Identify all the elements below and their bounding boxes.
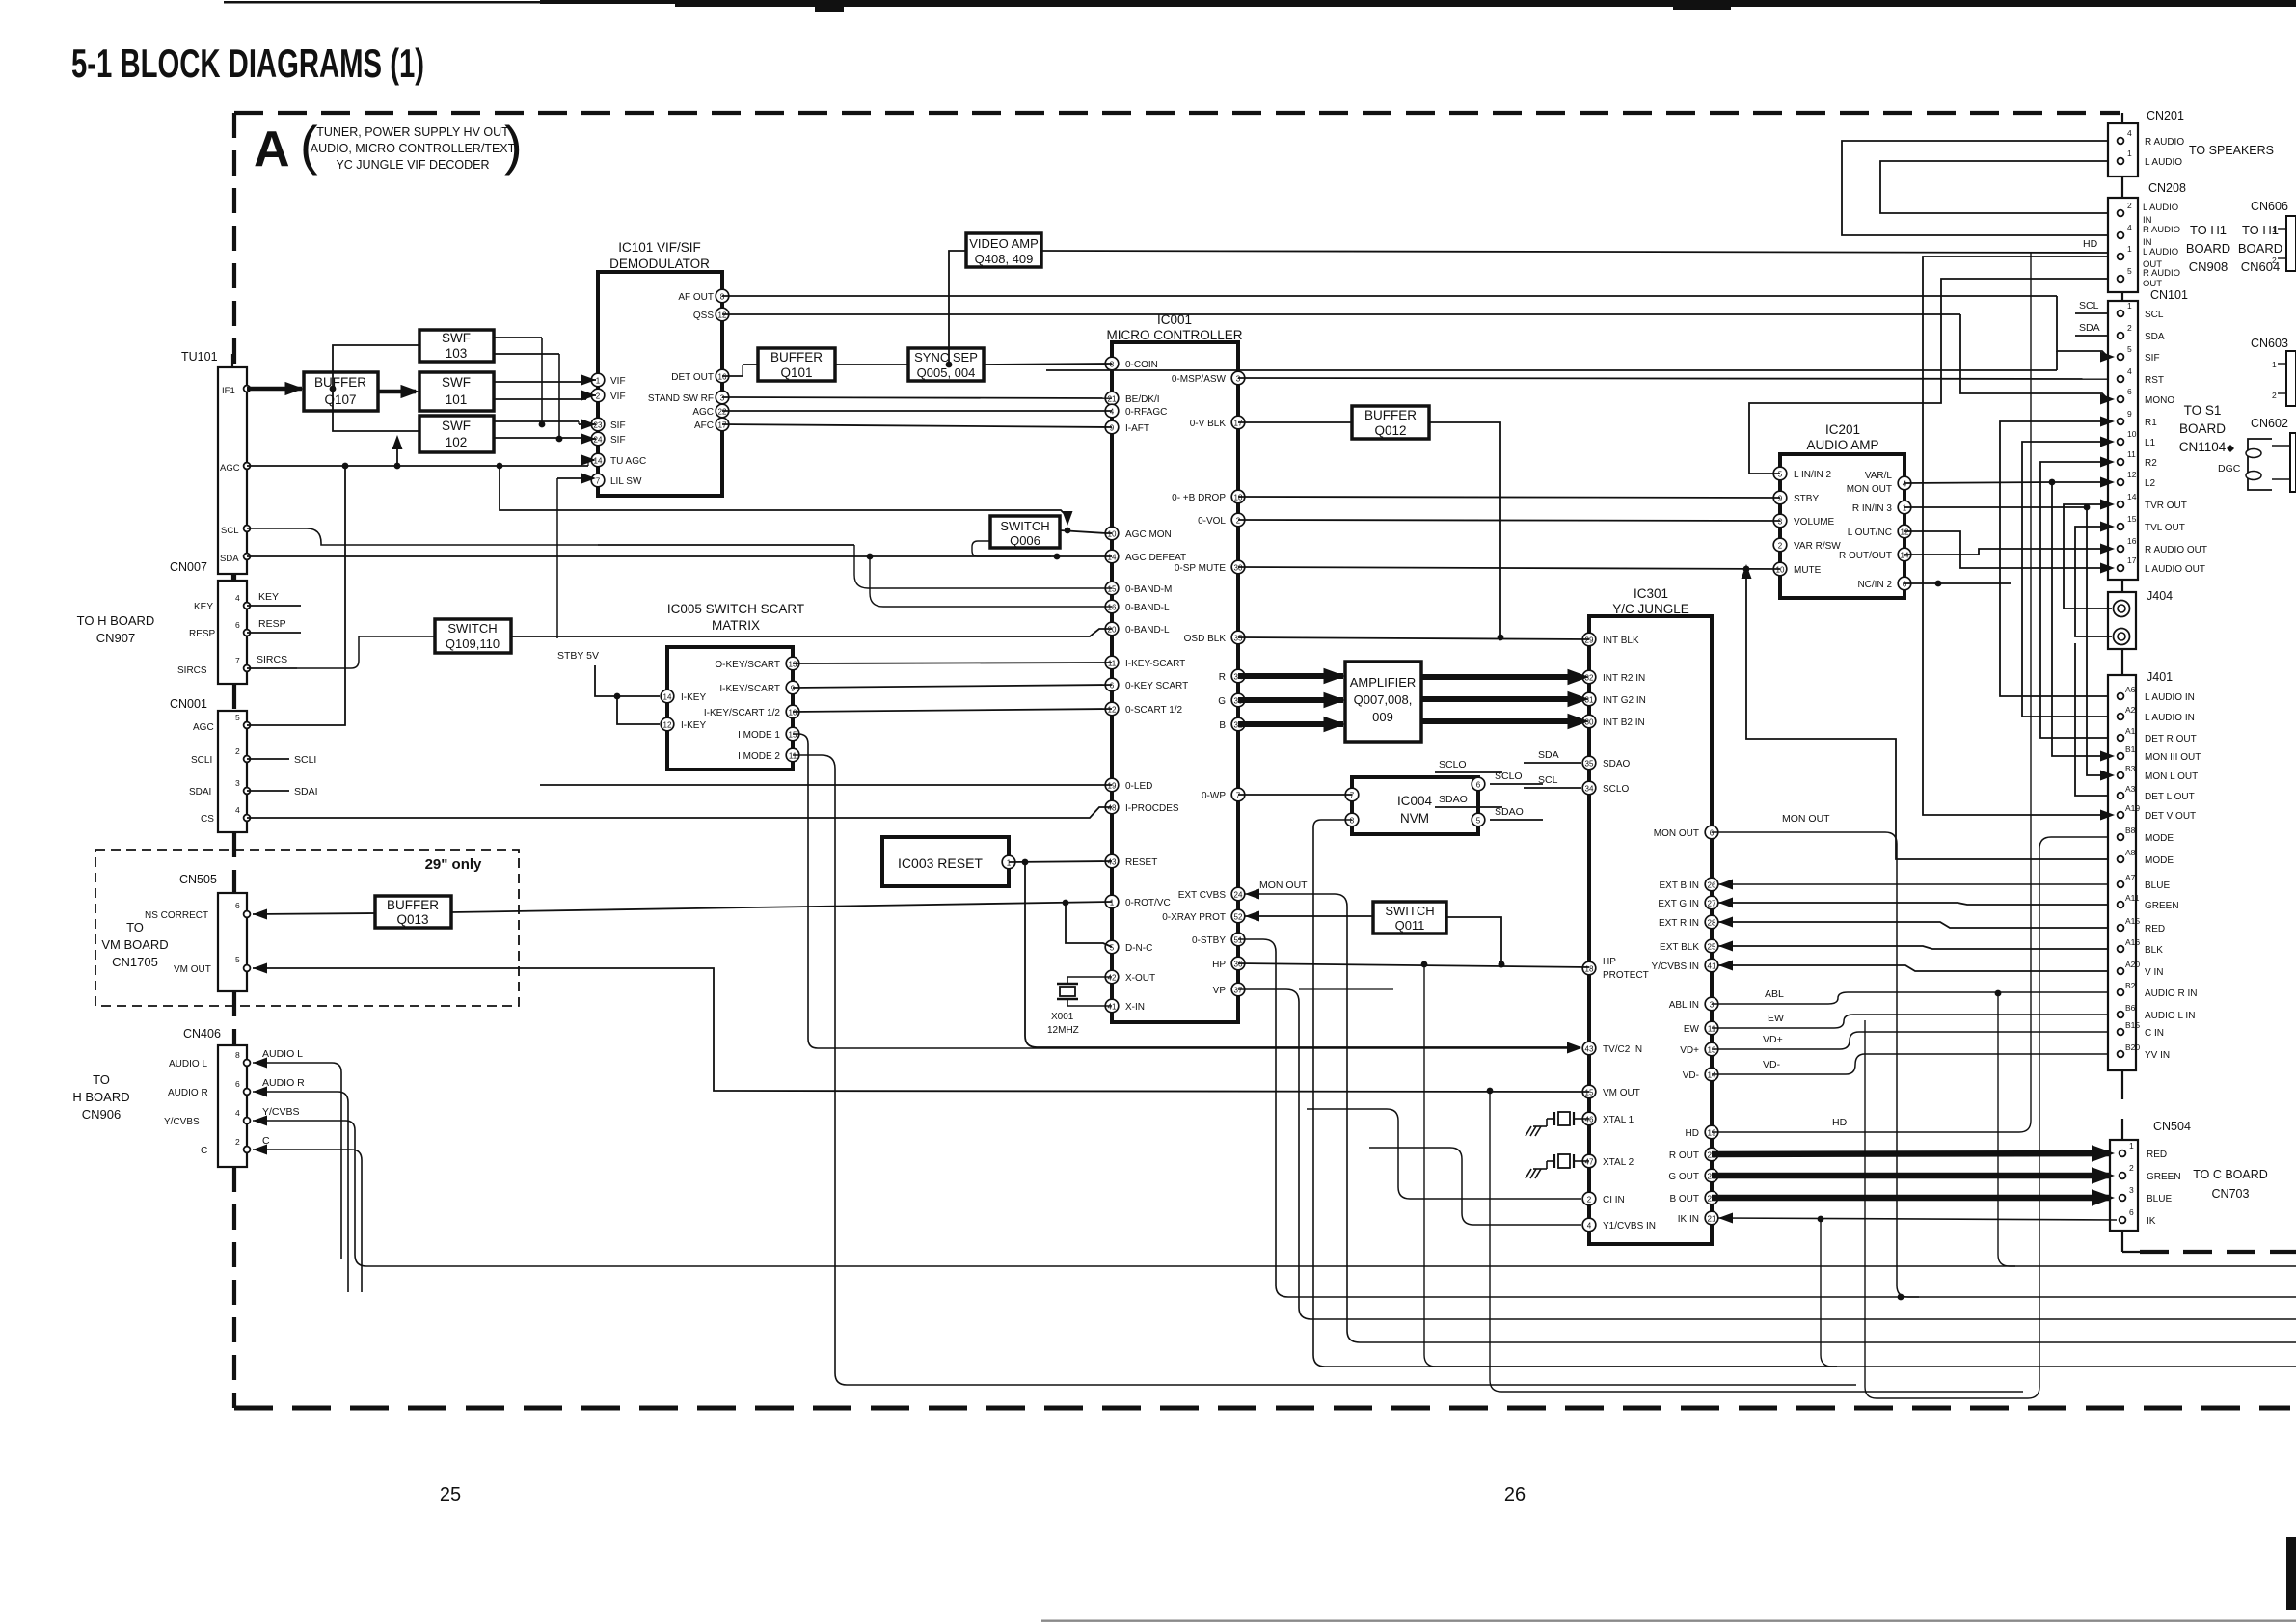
AGC branch wire to switch Q006 junction [500, 466, 1067, 517]
svg-text:1: 1 [2272, 360, 2277, 369]
svg-text:H BOARD: H BOARD [72, 1090, 129, 1104]
svg-text:0- +B DROP: 0- +B DROP [1172, 493, 1226, 503]
AF OUT long wire [722, 295, 2057, 297]
svg-text:12: 12 [1901, 528, 1909, 537]
svg-text:OSD BLK: OSD BLK [1184, 634, 1227, 644]
svg-text:R OUT/OUT: R OUT/OUT [1839, 551, 1892, 561]
I MODE 1 wire down to TV/C2 IN [793, 734, 1572, 1048]
svg-text:1: 1 [596, 377, 601, 386]
svg-text:R AUDIO: R AUDIO [2143, 225, 2180, 235]
svg-text:GREEN: GREEN [2145, 901, 2179, 911]
svg-text:B3: B3 [2125, 764, 2136, 773]
svg-text:Y/C JUNGLE: Y/C JUNGLE [1612, 602, 1689, 616]
svg-text:B1: B1 [2125, 744, 2136, 754]
IK line vertical to bottom bus [1821, 1220, 1837, 1367]
svg-text:CN606: CN606 [2251, 200, 2288, 213]
svg-text:CN101: CN101 [2150, 288, 2188, 302]
svg-text:L IN/IN 2: L IN/IN 2 [1794, 470, 1832, 480]
svg-text:12: 12 [1108, 706, 1117, 715]
svg-text:2: 2 [2272, 256, 2277, 265]
svg-text:0-LED: 0-LED [1125, 781, 1152, 792]
IC301 EXT B IN wire to J401 BLUE [1718, 880, 1733, 890]
svg-text:1: 1 [2127, 244, 2132, 254]
svg-text:SIF: SIF [2145, 353, 2160, 364]
svg-text:Q408, 409: Q408, 409 [975, 252, 1034, 266]
svg-text:8: 8 [1350, 817, 1355, 826]
svg-text:L OUT/NC: L OUT/NC [1848, 528, 1892, 538]
svg-text:2: 2 [2127, 323, 2132, 333]
29-inch-only dashed box [95, 850, 519, 1006]
svg-text:35: 35 [1234, 635, 1243, 643]
IC004 pin8 riser down bottom bus [1313, 820, 1837, 1367]
svg-text:AFC: AFC [694, 420, 714, 431]
svg-text:BUFFER: BUFFER [770, 350, 823, 365]
buffer Q012 output riser to OSD BLK [1429, 422, 1500, 637]
svg-text:I-KEY/SCART: I-KEY/SCART [719, 684, 780, 694]
svg-text:MUTE: MUTE [1794, 565, 1822, 576]
svg-text:TO: TO [93, 1072, 110, 1087]
svg-text:15: 15 [1108, 585, 1117, 594]
svg-text:27: 27 [1708, 900, 1716, 908]
svg-text:7: 7 [1350, 792, 1355, 800]
svg-text:CS: CS [201, 814, 214, 825]
svg-text:0-SP MUTE: 0-SP MUTE [1175, 563, 1226, 574]
svg-text:VOLUME: VOLUME [1794, 517, 1835, 528]
wires SWF103 outputs with taps to SIF [494, 337, 542, 338]
svg-text:7: 7 [596, 477, 601, 486]
svg-text:14: 14 [1108, 554, 1117, 562]
SDA stub at IC301 pin35 [1524, 762, 1581, 764]
svg-text:1: 1 [2127, 301, 2132, 311]
wire switch Q109-110 to 0-BAND-L pin20 [511, 629, 1112, 636]
svg-text:4: 4 [235, 1108, 240, 1118]
VD+ wire to J401 C IN [1712, 1032, 2108, 1049]
svg-text:TU101: TU101 [181, 350, 218, 364]
svg-text:IF1: IF1 [222, 386, 235, 396]
vertical from J401 AUDIO R IN to bottom bus [1998, 994, 2015, 1266]
amplifier Q007 Q008 Q009 [1345, 662, 1421, 742]
sync separator Q005 Q004 [908, 348, 984, 381]
svg-text:L1: L1 [2145, 438, 2156, 448]
buffer Q012 [1352, 406, 1429, 439]
svg-text:SDAO: SDAO [1603, 759, 1631, 770]
svg-text:12: 12 [718, 311, 727, 320]
wires IC005 outputs to IC001 [793, 663, 1112, 663]
svg-text:HD: HD [2083, 238, 2098, 250]
svg-text:DET L OUT: DET L OUT [2145, 792, 2195, 802]
svg-text:24: 24 [1234, 891, 1243, 900]
sync sep to 0-COIN [984, 364, 1112, 365]
svg-text:VIDEO AMP: VIDEO AMP [969, 236, 1039, 251]
U-shaped wire from J401 MODE B8 down and back up [1865, 837, 2108, 1398]
svg-text:47: 47 [1585, 1158, 1594, 1167]
IC001 micro controller block [1112, 342, 1238, 1022]
svg-text:TO S1: TO S1 [2184, 403, 2222, 418]
svg-text:SYNC SEP: SYNC SEP [914, 350, 978, 365]
svg-text:VP: VP [1213, 986, 1227, 996]
svg-text:AUDIO R IN: AUDIO R IN [2145, 988, 2197, 999]
IC003 reset output wire to RESET pin [1009, 861, 1112, 862]
svg-text:1: 1 [1007, 859, 1012, 868]
0-V BLK wire to buffer Q012 [1238, 421, 1352, 423]
svg-text:TO C BOARD: TO C BOARD [2193, 1168, 2268, 1181]
svg-text:0-COIN: 0-COIN [1125, 360, 1158, 370]
svg-text:EXT G IN: EXT G IN [1658, 899, 1699, 909]
svg-text:CN602: CN602 [2251, 417, 2288, 430]
buffer Q101 [758, 348, 835, 381]
svg-text:4: 4 [235, 805, 240, 815]
svg-text:L AUDIO: L AUDIO [2145, 157, 2182, 168]
J401 A3 DET L OUT wire [2075, 643, 2108, 796]
svg-text:BLUE: BLUE [2145, 880, 2170, 891]
svg-text:EW: EW [1684, 1024, 1700, 1035]
svg-text:I MODE 2: I MODE 2 [738, 751, 780, 762]
svg-text:HP: HP [1212, 960, 1226, 970]
svg-text:SIRCS: SIRCS [257, 654, 287, 665]
svg-text:SIRCS: SIRCS [177, 665, 207, 676]
AF OUT elbow into CN101 SIF [2057, 296, 2108, 357]
wire buffer Q107 to SWF101 (thick) [378, 390, 416, 394]
svg-text:KEY: KEY [258, 591, 279, 603]
svg-text:A8: A8 [2125, 848, 2136, 857]
svg-text:I-AFT: I-AFT [1125, 423, 1149, 434]
svg-text:3: 3 [1710, 1001, 1715, 1010]
svg-text:EXT CVBS: EXT CVBS [1178, 890, 1227, 901]
0-ROT/VC branch to D-N-C [1066, 903, 1112, 947]
dashed boundary of block A (left) [232, 113, 236, 367]
svg-text:I-KEY: I-KEY [681, 720, 706, 731]
wires SWF101 outputs to IC101 VIF pins [494, 381, 586, 383]
IC301 EXT G IN wire to J401 GREEN [1718, 898, 1733, 908]
IC301 Y/CVBS IN wire to J401 V IN [1718, 961, 1733, 971]
svg-text:AUDIO, MICRO CONTROLLER/TEXT: AUDIO, MICRO CONTROLLER/TEXT [311, 142, 516, 155]
crystal X001 12MHZ [1067, 976, 1112, 978]
svg-text:43: 43 [1108, 858, 1117, 867]
svg-text:PROTECT: PROTECT [1603, 970, 1649, 981]
svg-text:CN703: CN703 [2212, 1187, 2250, 1201]
svg-text:MON OUT: MON OUT [1654, 828, 1699, 839]
svg-text:TUNER, POWER SUPPLY HV OUT: TUNER, POWER SUPPLY HV OUT [316, 125, 509, 139]
svg-text:AUDIO L: AUDIO L [169, 1059, 207, 1069]
svg-text:1: 1 [2129, 1141, 2134, 1150]
link J401 to CN504 and boundary [2121, 1070, 2123, 1099]
svg-text:25: 25 [440, 1484, 461, 1505]
svg-text:CN1705: CN1705 [112, 955, 158, 969]
svg-text:BUFFER: BUFFER [387, 898, 439, 912]
CN201 R AUDIO link to CN208 R AUDIO IN [1842, 141, 2108, 235]
svg-text:9: 9 [2127, 409, 2132, 419]
svg-text:J404: J404 [2147, 589, 2173, 603]
switch Q006 bottom feed from SDA line [972, 541, 1051, 556]
svg-text:L AUDIO OUT: L AUDIO OUT [2145, 564, 2205, 575]
svg-text:DGC: DGC [2218, 463, 2241, 474]
svg-text:SCLI: SCLI [191, 755, 212, 766]
EXT CVBS MON OUT wire [1245, 889, 1259, 900]
QSS long wire [722, 313, 1960, 315]
HP junction riser down to bottom bus [1424, 964, 2296, 1367]
svg-text:R1: R1 [2145, 418, 2157, 428]
svg-text:STAND SW RF: STAND SW RF [648, 393, 714, 404]
svg-text:RESP: RESP [189, 629, 216, 639]
svg-text:VD-: VD- [1683, 1070, 1699, 1081]
svg-text:AGC MON: AGC MON [1125, 529, 1172, 540]
svg-text:12: 12 [2127, 470, 2137, 479]
IC201 NC/IN 2 wire [1904, 582, 2011, 584]
B OUT thick wire to CN504 BLUE [1712, 1195, 2110, 1202]
scan artifact: top edge black bar [675, 0, 2296, 7]
svg-text:SCLO: SCLO [1603, 784, 1629, 795]
SWF 103 [419, 330, 494, 362]
svg-text:STBY: STBY [1794, 494, 1819, 504]
svg-text:VM BOARD: VM BOARD [101, 937, 168, 952]
CI IN wire staircase [1307, 1109, 1581, 1199]
svg-text:HP: HP [1603, 957, 1616, 967]
svg-text:VAR R/SW: VAR R/SW [1794, 541, 1841, 552]
svg-text:MON III OUT: MON III OUT [2145, 752, 2201, 763]
svg-text:52: 52 [1234, 913, 1243, 922]
svg-text:3: 3 [720, 394, 725, 403]
svg-text:4: 4 [1587, 1222, 1592, 1231]
wire fan to SWF103 and SWF102 inputs [333, 345, 419, 431]
svg-text:SWITCH: SWITCH [1000, 519, 1049, 533]
svg-text:AUDIO L IN: AUDIO L IN [2145, 1011, 2195, 1021]
R G B thick wires into amplifier [1238, 673, 1343, 679]
svg-text:VD+: VD+ [1763, 1034, 1783, 1045]
svg-text:43: 43 [1585, 1045, 1594, 1054]
svg-text:TO H BOARD: TO H BOARD [77, 613, 155, 628]
SCL wire from tuner [247, 528, 598, 545]
svg-text:5: 5 [235, 955, 240, 964]
CN208 L AUDIO OUT wire down to J401 DET V OUT [1923, 257, 2108, 815]
0-BAND-M wire [854, 545, 1112, 588]
svg-text:BOARD: BOARD [2179, 421, 2226, 436]
svg-text:I-KEY: I-KEY [681, 692, 706, 703]
svg-text:SCLI: SCLI [294, 754, 316, 766]
svg-text:TO SPEAKERS: TO SPEAKERS [2189, 144, 2274, 157]
svg-text:XTAL 1: XTAL 1 [1603, 1115, 1634, 1125]
svg-text:BOARD: BOARD [2186, 241, 2230, 256]
SDA wire from tuner to AGC DEFEAT [247, 555, 1112, 557]
svg-text:3: 3 [2129, 1185, 2134, 1195]
svg-text:3: 3 [1236, 375, 1241, 384]
dashed boundary segment right of CN504 [2140, 1250, 2296, 1254]
IC201 R OUT/OUT wire to CN101 R AUDIO OUT [1904, 549, 2105, 555]
svg-text:102: 102 [446, 435, 468, 449]
IK IN wire from CN504 IK [1718, 1213, 1733, 1224]
svg-text:Q012: Q012 [1374, 423, 1406, 438]
IC101 VIF/SIF demodulator block [598, 272, 722, 496]
svg-text:C IN: C IN [2145, 1028, 2164, 1039]
svg-text:R2: R2 [2145, 458, 2157, 469]
svg-text:A19: A19 [2125, 803, 2140, 813]
KEY stub [247, 605, 301, 607]
svg-text:14: 14 [663, 693, 672, 702]
svg-text:9: 9 [1778, 495, 1783, 503]
svg-text:2: 2 [235, 746, 240, 756]
svg-text:YV IN: YV IN [2145, 1050, 2170, 1061]
svg-text:SDAI: SDAI [294, 786, 318, 798]
R OUT thick wire to CN504 RED [1712, 1153, 2110, 1154]
svg-text:Q005, 004: Q005, 004 [917, 365, 976, 380]
svg-text:I-KEY-SCART: I-KEY-SCART [1125, 659, 1185, 669]
svg-text:TO: TO [126, 920, 144, 934]
svg-text:A7: A7 [2125, 873, 2136, 882]
0-ROT/VC wire to buffer Q013 and CN505 [451, 902, 1112, 912]
IC201 L OUT/NC wire to CN101 L AUDIO OUT [1904, 531, 2105, 568]
svg-text:6: 6 [1903, 581, 1907, 589]
MON OUT wire from IC301 pin6 [1712, 831, 1885, 833]
HP wire to IC301 HP PROTECT [1238, 963, 1589, 967]
svg-text:CN906: CN906 [82, 1107, 121, 1122]
svg-text:3: 3 [235, 778, 240, 788]
svg-text:ABL IN: ABL IN [1669, 1000, 1699, 1011]
svg-text:4: 4 [2127, 223, 2132, 232]
IC003 reset block [882, 837, 1009, 886]
svg-text:26: 26 [1708, 881, 1716, 890]
svg-text:17: 17 [1234, 420, 1243, 428]
svg-text:30: 30 [1234, 564, 1243, 573]
DGC plug symbol [2248, 439, 2272, 490]
connector CN101 [2108, 301, 2138, 580]
CN101 R2 wire from J401 A1 [2040, 462, 2108, 738]
svg-text:ABL: ABL [1765, 988, 1784, 1000]
svg-text:SDA: SDA [220, 554, 239, 564]
svg-text:5: 5 [2127, 344, 2132, 354]
svg-text:AGC DEFEAT: AGC DEFEAT [1125, 553, 1186, 563]
dashed boundary of block A (top) [234, 111, 2120, 115]
SDA stub at CN101 [2075, 335, 2108, 337]
svg-text:INT BLK: INT BLK [1603, 636, 1639, 646]
svg-text:42: 42 [1108, 974, 1117, 983]
svg-text:CN406: CN406 [183, 1027, 221, 1041]
svg-text:Y1/CVBS IN: Y1/CVBS IN [1603, 1221, 1656, 1232]
CN101 TVL OUT wire to J404 jack2 [2075, 527, 2112, 636]
svg-text:1: 1 [1110, 899, 1115, 907]
svg-text:6: 6 [1710, 829, 1715, 838]
IC201 audio amp block [1780, 454, 1904, 598]
svg-text:SDA: SDA [2079, 322, 2100, 334]
svg-text:CN1104: CN1104 [2179, 440, 2227, 454]
svg-text:0-STBY: 0-STBY [1192, 935, 1226, 946]
HD wire from IC301 pin19 up to top [1712, 1131, 2019, 1133]
svg-text:0-BAND-M: 0-BAND-M [1125, 584, 1172, 595]
svg-text:AUDIO AMP: AUDIO AMP [1806, 438, 1878, 452]
0-XRAY PROT wire to switch Q011 [1245, 911, 1259, 922]
CN201 L AUDIO link to CN208 L AUDIO IN [1880, 161, 2108, 213]
svg-text:CN908: CN908 [2189, 259, 2228, 274]
connector CN208 [2108, 198, 2138, 292]
svg-text:MON L OUT: MON L OUT [2145, 771, 2198, 782]
VM OUT wire from CN505 to IC301 pin15 [253, 963, 267, 974]
AGC22 wire [722, 410, 1112, 412]
svg-text:11: 11 [789, 752, 797, 761]
svg-text:14: 14 [1708, 1071, 1716, 1080]
video amp HD wire to right [1041, 251, 2108, 253]
svg-text:SWF: SWF [442, 375, 471, 390]
svg-text:SDAO: SDAO [1439, 794, 1468, 805]
svg-text:CN505: CN505 [179, 873, 217, 886]
svg-text:BLK: BLK [2145, 945, 2163, 956]
svg-text:C: C [201, 1146, 207, 1156]
svg-text:6: 6 [2127, 387, 2132, 396]
tuner TU101 [218, 367, 247, 574]
svg-text:DEMODULATOR: DEMODULATOR [609, 257, 710, 271]
svg-text:HD: HD [1832, 1117, 1848, 1128]
svg-text:SWF: SWF [442, 331, 471, 345]
video amp Q408 Q409 [966, 233, 1041, 267]
svg-text:0-SCART 1/2: 0-SCART 1/2 [1125, 705, 1183, 716]
svg-text:0-BAND-L: 0-BAND-L [1125, 625, 1170, 636]
RESP stub [247, 632, 301, 634]
svg-text:Q013: Q013 [396, 912, 428, 927]
svg-text:MON OUT: MON OUT [1782, 813, 1830, 825]
svg-text:B15: B15 [2125, 1020, 2140, 1030]
svg-text:X-IN: X-IN [1125, 1002, 1145, 1013]
svg-text:7: 7 [1236, 792, 1241, 800]
MUTE loop down and around [1746, 569, 2108, 859]
svg-text:Y/CVBS: Y/CVBS [262, 1106, 300, 1118]
svg-text:L AUDIO: L AUDIO [2143, 247, 2178, 257]
G OUT thick wire to CN504 GREEN [1712, 1173, 2110, 1179]
svg-text:12: 12 [663, 721, 672, 730]
svg-text:VM OUT: VM OUT [1603, 1088, 1640, 1098]
svg-text:6: 6 [235, 1079, 240, 1089]
svg-text:4: 4 [2127, 128, 2132, 138]
svg-text:0-ROT/VC: 0-ROT/VC [1125, 898, 1171, 908]
svg-text:SDAI: SDAI [189, 787, 211, 798]
svg-text:Q107: Q107 [324, 392, 356, 407]
svg-text:I-PROCDES: I-PROCDES [1125, 803, 1179, 814]
0-VOL wire to IC201 VOLUME [1238, 520, 1780, 521]
svg-text:DET R OUT: DET R OUT [2145, 734, 2197, 744]
svg-text:SCLO: SCLO [1439, 759, 1467, 771]
svg-text:11: 11 [1108, 660, 1117, 668]
svg-text:A15: A15 [2125, 916, 2140, 926]
svg-text:L AUDIO IN: L AUDIO IN [2145, 713, 2195, 723]
VM OUT riser down to bottom bus [1490, 1091, 2023, 1392]
SDAI stub [247, 790, 289, 792]
CN101 L1 wire from J401 A2 [2022, 442, 2108, 717]
svg-text:SCL: SCL [1538, 774, 1558, 786]
svg-text:20: 20 [1108, 626, 1117, 635]
0-MSP/ASW wire to CN101 RST [1238, 378, 2108, 379]
svg-text:R IN/IN 3: R IN/IN 3 [1852, 503, 1893, 514]
svg-text:X001: X001 [1051, 1012, 1074, 1022]
switch Q011 [1373, 902, 1446, 934]
svg-text:5: 5 [235, 713, 240, 722]
svg-text:TVL OUT: TVL OUT [2145, 523, 2185, 533]
svg-text:CN201: CN201 [2147, 109, 2184, 122]
svg-text:BLUE: BLUE [2147, 1194, 2172, 1204]
IC201 VAR/L MON OUT wire to CN101 L2 and J401 B1 [1904, 482, 2052, 483]
svg-text:R AUDIO: R AUDIO [2145, 137, 2184, 148]
svg-text:DET V OUT: DET V OUT [2145, 811, 2196, 822]
svg-text:16: 16 [1108, 604, 1117, 612]
ABL wire from IC301 to J401 AUDIO R IN [1712, 992, 2108, 1004]
svg-text:BE/DK/I: BE/DK/I [1125, 394, 1160, 405]
svg-text:SWITCH: SWITCH [1385, 904, 1434, 918]
OSD BLK wire to INT BLK [1238, 637, 1589, 639]
SCL wire continues to 0-BAND elbow [598, 544, 854, 546]
svg-text:4: 4 [2127, 366, 2132, 376]
svg-text:VD-: VD- [1763, 1059, 1781, 1070]
svg-text:5: 5 [1778, 471, 1783, 479]
svg-text:10: 10 [789, 709, 797, 717]
svg-text:LIL SW: LIL SW [610, 476, 642, 487]
svg-text:0-BAND-L: 0-BAND-L [1125, 603, 1170, 613]
svg-text:MON OUT: MON OUT [1259, 880, 1308, 891]
svg-text:AUDIO R: AUDIO R [168, 1088, 208, 1098]
